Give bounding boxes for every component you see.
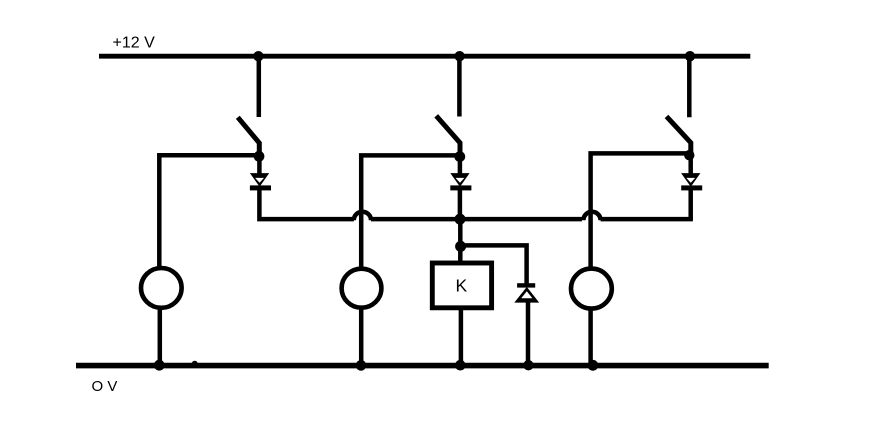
label K: [455, 276, 467, 296]
wire: S1 output to lamp L1 branch: [159, 155, 259, 269]
diode D2 cathode wire to common node: [458, 189, 463, 219]
junction relay top / flyback diode: [455, 241, 466, 252]
lamp L2: [342, 269, 382, 308]
junction L3 / 0V rail: [588, 360, 599, 371]
svg-text:O V: O V: [92, 378, 118, 395]
lamp L3: [571, 269, 612, 309]
wire hop over L2 branch: [354, 212, 371, 221]
node: S1 output: [254, 151, 265, 162]
wire: rail drop to switch S2: [457, 56, 462, 117]
diode D2 anode wire: [458, 156, 463, 174]
wire: common node down to relay K: [458, 219, 463, 262]
wire: rail drop to switch S1: [257, 56, 262, 117]
common wire right segment: [601, 217, 693, 222]
diode D3 anode wire: [688, 155, 693, 174]
junction common wire / relay feed: [455, 214, 466, 225]
junction top rail / S2: [454, 51, 464, 61]
switch S2: [436, 116, 460, 154]
svg-text:+12 V: +12 V: [113, 35, 156, 52]
relay coil K: [432, 263, 491, 308]
diode D1 cathode wire to common node: [259, 189, 354, 219]
node: S3 output: [684, 150, 694, 160]
diode D3 cathode wire to common node: [688, 189, 693, 219]
junction D4 / 0V rail: [523, 360, 533, 370]
stray dot on 0V rail: [192, 361, 198, 367]
wire: rail drop to switch S3: [687, 56, 692, 117]
wire: lamp L3 to 0V rail: [588, 308, 593, 366]
0 V rail: [76, 363, 769, 369]
wire hop over L3 branch: [583, 212, 600, 221]
junction L1 / 0V rail: [154, 360, 165, 371]
wire: flyback diode D4 to 0V rail: [526, 302, 531, 365]
junction relay / 0V rail: [455, 360, 466, 371]
junction top rail / S1: [253, 51, 263, 61]
wire: lamp L2 to 0V rail: [359, 307, 364, 366]
wire: relay K to 0V rail: [459, 309, 464, 365]
wire: S2 output to lamp L2 branch: [361, 155, 460, 269]
diode D2: [450, 173, 471, 190]
node: S2 output: [454, 151, 465, 162]
diode D1 anode wire: [257, 156, 262, 174]
switch S1: [238, 117, 259, 154]
junction top rail / S3: [685, 51, 695, 61]
flyback diode D4: [514, 283, 539, 302]
switch S3: [667, 116, 691, 153]
wire: S3 output to lamp L3 branch: [591, 153, 690, 269]
lamp L1: [141, 268, 182, 308]
wire: lamp L1 to 0V rail: [158, 307, 163, 366]
common wire between hops: [371, 217, 582, 222]
diode D3: [681, 173, 702, 190]
diode D1: [250, 173, 271, 190]
label O V: [92, 378, 118, 395]
label +12 V: [113, 35, 156, 52]
wire: relay top node to flyback diode D4: [461, 245, 527, 284]
svg-text:K: K: [455, 276, 467, 296]
junction L2 / 0V rail: [356, 360, 367, 371]
+12 V supply rail: [99, 54, 750, 59]
